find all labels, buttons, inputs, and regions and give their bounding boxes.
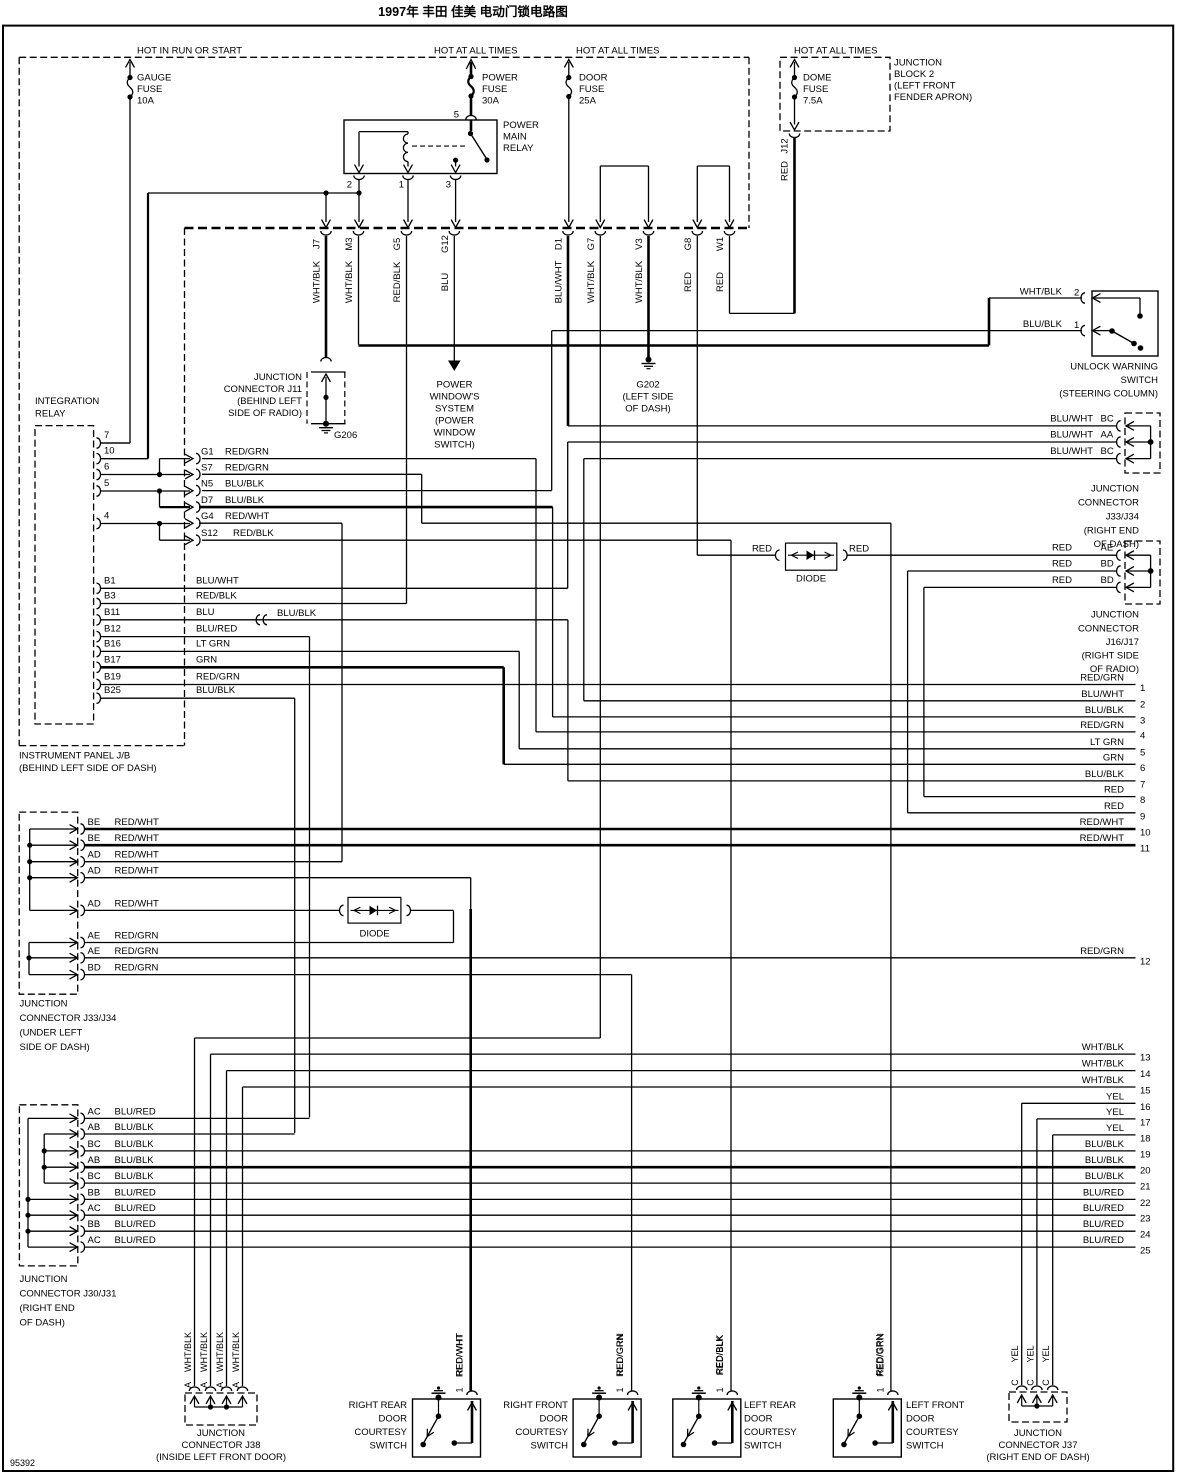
junction connector J38 (185, 1387, 257, 1425)
svg-text:BLU: BLU (196, 607, 215, 618)
svg-text:LEFT REAR: LEFT REAR (744, 1400, 796, 1411)
svg-text:FUSE: FUSE (579, 84, 604, 95)
svg-text:DOOR: DOOR (579, 73, 608, 84)
connector row S7 (196, 462, 269, 479)
svg-text:HOT AT ALL TIMES: HOT AT ALL TIMES (794, 46, 877, 57)
svg-text:A: A (199, 1382, 209, 1388)
numbered wire 16 label (1106, 1091, 1151, 1113)
connector row G1 (196, 447, 269, 464)
svg-text:G202: G202 (636, 380, 659, 391)
svg-text:WHT/BLK: WHT/BLK (1082, 1042, 1125, 1053)
left front door courtesy switch (833, 1333, 964, 1457)
svg-text:CONNECTOR J33/J34: CONNECTOR J33/J34 (20, 1013, 117, 1024)
svg-text:AE: AE (1101, 543, 1114, 554)
wire diode out wrap (410, 910, 454, 942)
svg-text:SWITCH: SWITCH (906, 1441, 944, 1452)
wire D1 BLU/WHT (567, 236, 570, 426)
junction connector J11 label (224, 372, 302, 419)
numbered wire 23 label (1083, 1203, 1151, 1225)
svg-text:OF DASH): OF DASH) (20, 1318, 65, 1329)
row label BD RED/GRN (88, 963, 159, 974)
wire BLU/BLK to unlock pin1 (552, 331, 1082, 491)
junction connector J30/J31 dashed box (19, 1105, 77, 1266)
J38 pin label A (183, 1382, 193, 1388)
svg-text:RED/WHT: RED/WHT (225, 511, 270, 522)
wire 4 RED/GRN (536, 731, 1136, 733)
svg-text:BLU/BLK: BLU/BLK (277, 608, 317, 619)
svg-text:(RIGHT SIDE: (RIGHT SIDE (1082, 651, 1139, 662)
J/B connector bus (dashed) (185, 227, 750, 230)
svg-text:WHT/BLK: WHT/BLK (215, 1332, 225, 1372)
svg-text:BLOCK 2: BLOCK 2 (894, 69, 934, 80)
wire YEL J37-1 (16) (1022, 1103, 1136, 1385)
diode D (lower) (84, 897, 411, 939)
wire label RED/BLK (switch3) (715, 1336, 725, 1375)
wire relay pin3 to G12 (451, 180, 459, 228)
svg-text:B19: B19 (104, 672, 121, 683)
bus pin label M3 (344, 237, 355, 303)
row label BB BLU/RED J30 (88, 1219, 156, 1230)
door fuse wire (565, 60, 573, 228)
J38 wire label WHT/BLK (199, 1332, 209, 1372)
label HOT IN RUN OR START (137, 46, 242, 57)
svg-text:G5: G5 (392, 238, 403, 251)
wire BC BLU/BLK (19) (84, 1150, 1136, 1152)
wire RED from dome fuse (780, 137, 795, 313)
row label AC BLU/RED J30 (88, 1203, 156, 1214)
connector pin B3 (97, 591, 238, 609)
wire AC BLU/RED (25) (84, 1246, 1136, 1248)
J37 pin label C (1025, 1379, 1035, 1386)
connector pin B25 (97, 685, 236, 703)
svg-text:1: 1 (1074, 320, 1079, 331)
wire RED diode to J16/J17 AE (847, 554, 1117, 556)
svg-text:BLU/BLK: BLU/BLK (115, 1171, 155, 1182)
svg-text:BLU/BLK: BLU/BLK (115, 1139, 155, 1150)
svg-text:BLU/RED: BLU/RED (115, 1219, 156, 1230)
svg-text:(BEHIND LEFT: (BEHIND LEFT (237, 396, 302, 407)
svg-text:BLU/BLK: BLU/BLK (1085, 1155, 1125, 1166)
svg-text:RED/GRN: RED/GRN (115, 946, 159, 957)
svg-text:RED: RED (1052, 543, 1072, 554)
svg-text:FUSE: FUSE (482, 84, 507, 95)
svg-text:WINDOW: WINDOW (434, 428, 476, 439)
svg-text:HOT AT ALL TIMES: HOT AT ALL TIMES (576, 46, 659, 57)
svg-text:RED/GRN: RED/GRN (875, 1334, 885, 1376)
wire BB BLU/RED (24) (84, 1230, 1136, 1232)
svg-text:B3: B3 (104, 591, 116, 602)
svg-text:25: 25 (1140, 1246, 1151, 1257)
svg-text:RED/WHT: RED/WHT (1080, 817, 1125, 828)
svg-text:J12: J12 (780, 138, 791, 153)
numbered wire 19 label (1085, 1139, 1151, 1161)
svg-text:JUNCTION: JUNCTION (1091, 484, 1139, 495)
wire S12 RED/BLK (202, 540, 731, 1391)
title (378, 4, 568, 19)
svg-text:WHT/BLK: WHT/BLK (344, 260, 355, 303)
wire to J7 connector (322, 193, 330, 228)
wire N5 BLU/BLK (202, 490, 552, 492)
svg-text:AE: AE (88, 946, 101, 957)
wire WHT/BLK to unlock switch (359, 298, 1083, 346)
svg-text:WINDOW'S: WINDOW'S (430, 392, 480, 403)
svg-text:1: 1 (1140, 683, 1145, 694)
svg-text:N5: N5 (201, 479, 213, 490)
svg-text:GRN: GRN (1103, 752, 1124, 763)
wire 2 BLU/WHT (584, 700, 1136, 702)
svg-text:POWER: POWER (482, 73, 518, 84)
connector pin B17 (97, 654, 218, 672)
svg-text:10A: 10A (137, 96, 155, 107)
svg-text:B1: B1 (104, 575, 116, 586)
svg-text:BC: BC (1101, 413, 1114, 424)
junction connector J33/J34 dashed box (under dash) (19, 812, 77, 994)
numbered wire 17 label (1106, 1107, 1151, 1129)
svg-text:DOME: DOME (803, 73, 832, 84)
relay pin 1 (399, 162, 413, 191)
svg-text:G206: G206 (334, 430, 357, 441)
svg-text:RED/GRN: RED/GRN (615, 1334, 625, 1376)
bus pin label G7 (586, 238, 597, 303)
svg-text:V3: V3 (634, 238, 645, 250)
svg-text:D1: D1 (554, 238, 565, 250)
svg-text:G7: G7 (586, 238, 597, 251)
row label AD RED/WHT (88, 866, 160, 877)
svg-text:1: 1 (399, 180, 404, 191)
svg-text:RED/GRN: RED/GRN (1080, 673, 1124, 684)
svg-text:J7: J7 (312, 239, 323, 249)
svg-text:7: 7 (1140, 779, 1145, 790)
svg-text:95392: 95392 (10, 1458, 35, 1468)
unlock warning switch box (1092, 291, 1158, 356)
svg-text:RED/GRN: RED/GRN (115, 963, 159, 974)
svg-text:8: 8 (1140, 795, 1145, 806)
wire BE RED/WHT (10) (84, 828, 1136, 831)
svg-text:18: 18 (1140, 1133, 1151, 1144)
svg-text:SWITCH: SWITCH (1121, 375, 1159, 386)
junction connector J30/J31 label (20, 1274, 117, 1329)
svg-text:B11: B11 (104, 607, 120, 618)
wire G7 WHT/BLK (599, 236, 601, 1038)
row label BE RED/WHT (88, 833, 160, 844)
svg-text:JUNCTION: JUNCTION (197, 1428, 245, 1439)
svg-text:BLU/RED: BLU/RED (115, 1106, 156, 1117)
svg-text:AD: AD (88, 850, 101, 861)
svg-text:WHT/BLK: WHT/BLK (634, 260, 645, 303)
row label AD RED/WHT (88, 850, 160, 861)
junction connector J33/J34 under-dash label (20, 999, 117, 1054)
svg-text:BLU/RED: BLU/RED (1083, 1235, 1124, 1246)
numbered wire 6 label (1103, 752, 1145, 774)
row label BC BLU/BLK J30 (88, 1171, 155, 1182)
svg-text:BLU/RED: BLU/RED (115, 1235, 156, 1246)
svg-text:CONNECTOR J37: CONNECTOR J37 (998, 1440, 1077, 1451)
connector pin B16 (97, 638, 231, 656)
svg-text:RED/WHT: RED/WHT (115, 833, 160, 844)
numbered wire 11 label (1080, 833, 1150, 855)
svg-text:RED/GRN: RED/GRN (1080, 946, 1124, 957)
svg-text:MAIN: MAIN (503, 132, 527, 143)
svg-text:FUSE: FUSE (137, 84, 162, 95)
wire label RED/GRN (switch2) (615, 1334, 625, 1376)
wire relay pin1 to G5 (404, 180, 412, 228)
wire RED to diode left (0, 0, 1, 1)
svg-text:10: 10 (104, 446, 115, 457)
svg-text:LEFT FRONT: LEFT FRONT (906, 1400, 965, 1411)
svg-text:RED/BLK: RED/BLK (392, 261, 403, 302)
svg-text:POWER: POWER (437, 380, 473, 391)
wire AB BLU/BLK (20) (84, 1166, 1136, 1169)
connector row D7 (196, 495, 265, 512)
svg-text:RED: RED (849, 544, 869, 555)
svg-text:11: 11 (1140, 844, 1150, 855)
svg-text:(RIGHT END: (RIGHT END (20, 1303, 75, 1314)
relay switch (468, 121, 490, 163)
right rear door courtesy switch (349, 1333, 481, 1457)
row label BB BLU/RED J30 (88, 1187, 156, 1198)
svg-text:BLU/RED: BLU/RED (1083, 1187, 1124, 1198)
J38 wire label WHT/BLK (215, 1332, 225, 1372)
wire WHT/BLK J38-2 (13) (211, 1054, 1136, 1386)
wire pin10 feed (100, 193, 148, 459)
svg-text:BLU/BLK: BLU/BLK (225, 495, 265, 506)
svg-text:SWITCH): SWITCH) (434, 440, 475, 451)
svg-text:RED/GRN: RED/GRN (225, 447, 269, 458)
svg-text:BLU/BLK: BLU/BLK (115, 1155, 155, 1166)
ground G206 (319, 421, 357, 441)
svg-text:BLU/WHT: BLU/WHT (1081, 689, 1124, 700)
junction node pin2 (148, 190, 359, 195)
svg-text:RED: RED (1052, 575, 1072, 586)
svg-text:6: 6 (1140, 763, 1145, 774)
svg-text:BD: BD (1101, 559, 1114, 570)
wire RED/WHT to right rear switch (469, 909, 472, 1391)
svg-text:JUNCTION: JUNCTION (254, 372, 302, 383)
gauge fuse wire (100, 60, 134, 444)
svg-text:BE: BE (88, 833, 101, 844)
bus pin label G5 (392, 238, 403, 303)
svg-text:M3: M3 (344, 237, 355, 250)
svg-text:(POWER: (POWER (435, 416, 474, 427)
svg-text:D7: D7 (201, 495, 213, 506)
svg-text:S12: S12 (201, 528, 218, 539)
wire RED BD row upper (908, 571, 1117, 813)
svg-text:BLU/RED: BLU/RED (115, 1187, 156, 1198)
svg-text:1997年 丰田 佳美 电动门锁电路图: 1997年 丰田 佳美 电动门锁电路图 (378, 4, 568, 19)
svg-text:21: 21 (1140, 1182, 1151, 1193)
svg-text:BB: BB (88, 1187, 101, 1198)
J38 pin label A (215, 1382, 225, 1388)
svg-text:BD: BD (88, 963, 101, 974)
svg-text:20: 20 (1140, 1166, 1151, 1177)
svg-text:YEL: YEL (1106, 1123, 1124, 1134)
dome fuse wire (790, 60, 798, 131)
svg-text:RELAY: RELAY (35, 409, 66, 420)
svg-text:5: 5 (104, 478, 109, 489)
svg-text:RED/GRN: RED/GRN (225, 462, 269, 473)
connector row G4 (196, 511, 270, 528)
svg-text:BB: BB (88, 1219, 101, 1230)
svg-text:5: 5 (454, 110, 459, 121)
svg-text:INTEGRATION: INTEGRATION (35, 396, 99, 407)
junction connector J33/J34 (right end of dash) (1117, 413, 1160, 473)
svg-text:WHT/BLK: WHT/BLK (586, 260, 597, 303)
bus pin label G8 (683, 238, 694, 292)
wire B3 RED/BLK (100, 603, 407, 605)
diode D (upper) (752, 543, 869, 584)
wire B17 GRN (100, 667, 504, 764)
numbered wire 20 label (1085, 1155, 1151, 1177)
connector pin B12 (97, 624, 238, 642)
svg-text:JUNCTION: JUNCTION (20, 999, 68, 1010)
label RED BD right (1052, 575, 1114, 586)
wire B12 BLU/RED (100, 637, 310, 1118)
svg-text:SWITCH: SWITCH (744, 1441, 782, 1452)
J37 wire label YEL (1010, 1345, 1020, 1362)
svg-text:17: 17 (1140, 1117, 1151, 1128)
svg-text:SIDE OF DASH): SIDE OF DASH) (20, 1042, 90, 1053)
svg-text:7.5A: 7.5A (803, 96, 823, 107)
wire 7 BLU/BLK (568, 780, 1136, 782)
J37 wire label YEL (1041, 1345, 1051, 1362)
svg-text:G8: G8 (683, 238, 694, 251)
svg-text:6: 6 (104, 462, 109, 473)
svg-text:(RIGHT END OF DASH): (RIGHT END OF DASH) (986, 1452, 1089, 1463)
svg-text:RED: RED (752, 544, 772, 555)
integration relay pin 6 (97, 462, 110, 480)
numbered wire 9 label (1104, 801, 1145, 823)
svg-text:RED/GRN: RED/GRN (115, 931, 159, 942)
svg-text:RED: RED (1052, 559, 1072, 570)
power main relay box (344, 120, 497, 174)
junction connector J37 label (986, 1428, 1089, 1463)
svg-text:JUNCTION: JUNCTION (1014, 1428, 1062, 1439)
power main relay label (503, 120, 539, 154)
svg-text:WHT/BLK: WHT/BLK (1020, 287, 1063, 298)
unlock switch pin 2 (1020, 287, 1143, 319)
svg-text:DOOR: DOOR (906, 1414, 935, 1425)
svg-text:C: C (1010, 1379, 1020, 1386)
junction connector J16/J17 (right side of radio) (1117, 541, 1160, 604)
door fuse 25A (566, 73, 608, 107)
J38 wire label WHT/BLK (231, 1332, 241, 1372)
svg-text:BD: BD (1101, 575, 1114, 586)
svg-text:(STEERING COLUMN): (STEERING COLUMN) (1059, 389, 1158, 400)
diagram number 95392 (10, 1458, 35, 1468)
svg-text:DOOR: DOOR (379, 1414, 408, 1425)
numbered wire 4 label (1080, 720, 1145, 742)
svg-text:C: C (1025, 1379, 1035, 1386)
svg-text:WHT/BLK: WHT/BLK (312, 260, 323, 303)
svg-text:RED: RED (683, 272, 694, 292)
svg-text:GRN: GRN (196, 654, 217, 665)
wire J7 WHT/BLK to J11 (321, 236, 331, 362)
wire pin4 to G4/S12 (100, 519, 193, 544)
numbered wire 8 label (1104, 785, 1145, 807)
svg-text:AA: AA (1101, 430, 1114, 441)
svg-text:BC: BC (88, 1171, 101, 1182)
svg-text:5: 5 (1140, 747, 1145, 758)
svg-text:B17: B17 (104, 654, 121, 665)
svg-text:AC: AC (88, 1235, 101, 1246)
svg-text:A: A (231, 1382, 241, 1388)
svg-text:YEL: YEL (1106, 1107, 1124, 1118)
unlock warning switch label (1059, 362, 1158, 400)
wire AB BLU/BLK row2 (84, 1133, 295, 1135)
wire G4 RED/WHT (199, 523, 342, 862)
numbered wire 24 label (1083, 1219, 1151, 1241)
numbered wire 1 label (1080, 673, 1145, 695)
label HOT AT ALL TIMES (door fuse) (576, 46, 659, 57)
svg-text:COURTESY: COURTESY (515, 1427, 568, 1438)
svg-text:RED: RED (1104, 785, 1124, 796)
numbered wire 21 label (1085, 1171, 1151, 1193)
junction connector J11 box (307, 372, 346, 424)
svg-text:G1: G1 (201, 447, 214, 458)
svg-text:(RIGHT END: (RIGHT END (1084, 526, 1139, 537)
integration relay pin 10 (97, 446, 115, 464)
svg-text:JUNCTION: JUNCTION (1091, 610, 1139, 621)
svg-text:BE: BE (88, 817, 101, 828)
power fuse 30A (468, 73, 518, 107)
bus pin label V3 (634, 238, 645, 303)
unlock switch pin 1 (1023, 319, 1143, 351)
numbered wire 2 label (1081, 689, 1145, 711)
svg-text:2: 2 (1140, 699, 1145, 710)
wire B1 BLU/WHT (100, 442, 568, 588)
svg-text:BC: BC (1101, 446, 1114, 457)
svg-text:B12: B12 (104, 624, 121, 635)
wire D7 BLU/BLK (199, 507, 553, 717)
power window system label (430, 380, 480, 451)
svg-text:J33/J34: J33/J34 (1106, 512, 1139, 523)
wire YEL J37-3 (18) (1053, 1135, 1136, 1385)
junction connector J16/J17 label (1078, 610, 1139, 676)
numbered wire 12 label (1080, 946, 1150, 968)
wire 8 RED (924, 796, 1136, 798)
numbered wire 15 label (1082, 1075, 1151, 1097)
svg-text:RED: RED (1104, 801, 1124, 812)
left rear door courtesy switch (673, 1334, 797, 1457)
label BLU/WHT AA (1050, 430, 1114, 441)
junction connector J37 (1009, 1386, 1067, 1422)
relay pin 2 (347, 165, 364, 190)
J37 pin label C (1010, 1379, 1020, 1386)
svg-text:B16: B16 (104, 638, 121, 649)
svg-text:COURTESY: COURTESY (744, 1427, 797, 1438)
junction block 2 dashed box (780, 57, 890, 131)
bus pin label D1 (554, 238, 565, 303)
label RED BD right (1052, 559, 1114, 570)
row label AB BLU/BLK J30 (88, 1122, 155, 1133)
wire label RED/WHT (switch1) (455, 1334, 465, 1376)
integration relay pin 7 (97, 430, 110, 448)
numbered wire 5 label (1090, 737, 1145, 759)
svg-text:RED/GRN: RED/GRN (1080, 720, 1124, 731)
svg-text:CONNECTOR J30/J31: CONNECTOR J30/J31 (20, 1289, 117, 1300)
svg-text:(LEFT FRONT: (LEFT FRONT (894, 81, 956, 92)
svg-text:RED/WHT: RED/WHT (115, 850, 160, 861)
wire 6 GRN (504, 763, 1136, 765)
svg-text:YEL: YEL (1025, 1345, 1035, 1362)
svg-text:RED/BLK: RED/BLK (715, 1336, 725, 1375)
svg-text:WHT/BLK: WHT/BLK (231, 1332, 241, 1372)
bus pin label W1 (715, 237, 726, 292)
svg-text:14: 14 (1140, 1069, 1151, 1080)
connector pin B1 (97, 575, 239, 593)
svg-text:13: 13 (1140, 1053, 1151, 1064)
svg-text:UNLOCK WARNING: UNLOCK WARNING (1070, 362, 1158, 373)
